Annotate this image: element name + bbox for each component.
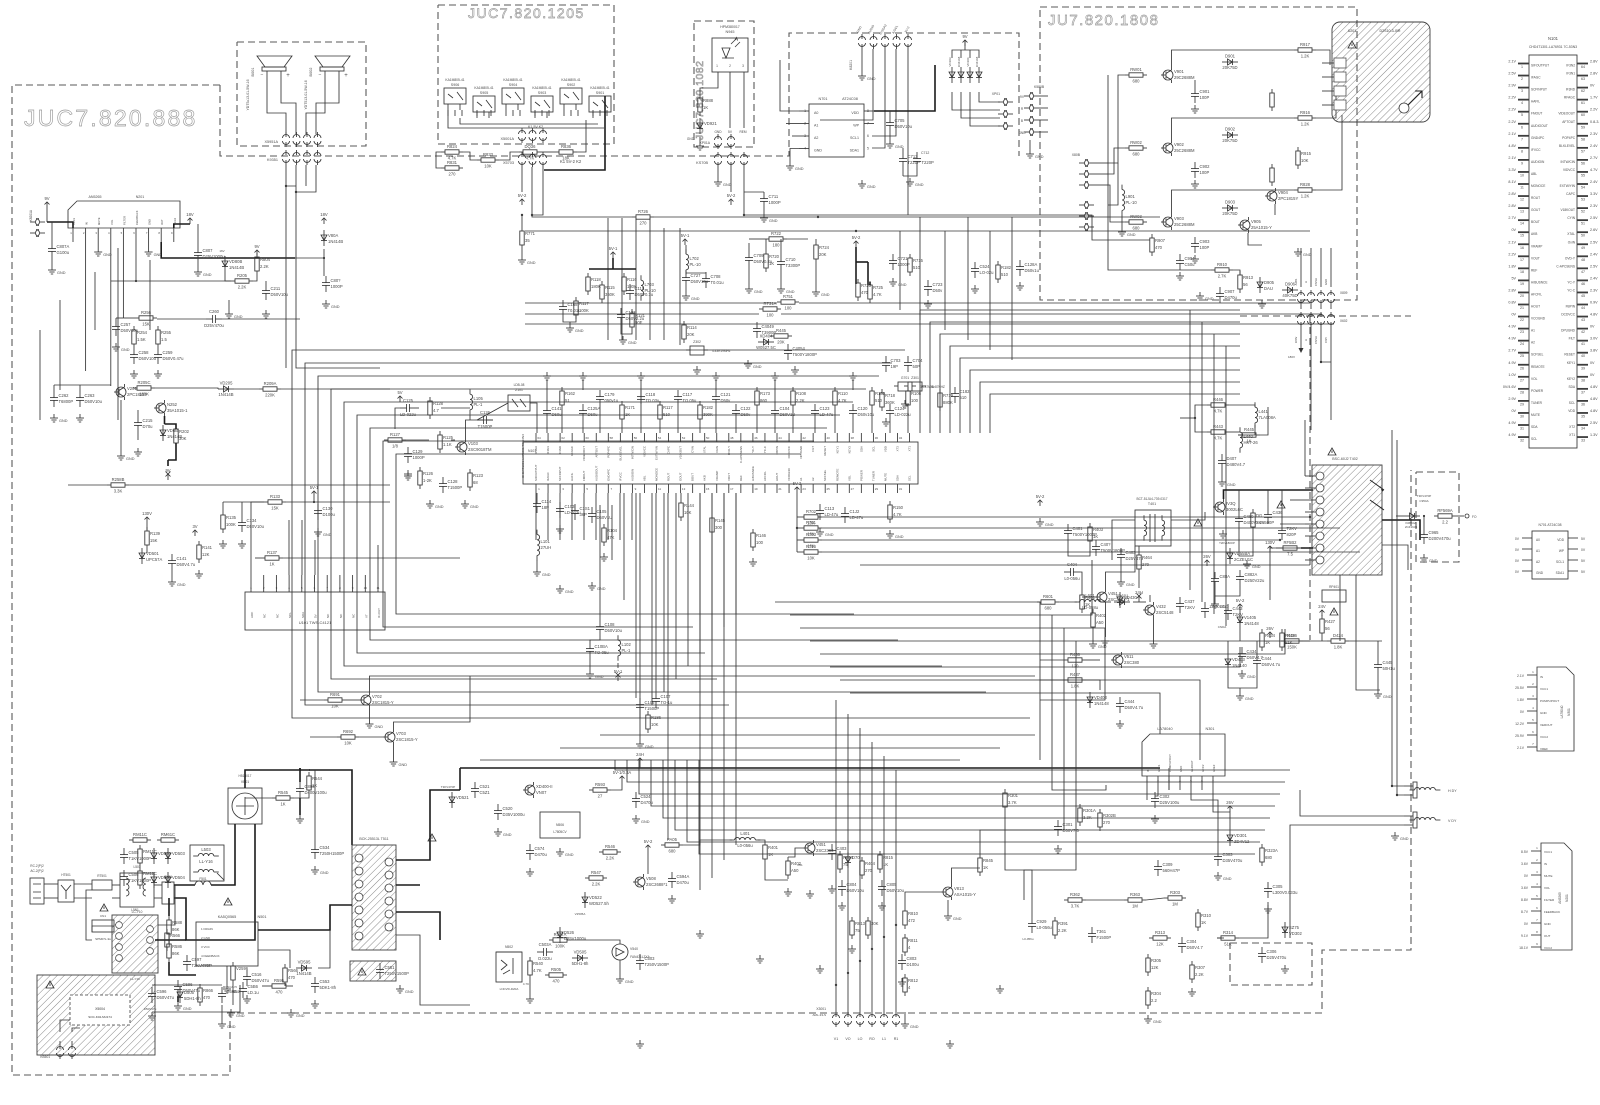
svg-text:V511: V511 (1124, 654, 1134, 659)
svg-text:X5001A: X5001A (500, 137, 514, 141)
svg-text:0V: 0V (1515, 548, 1520, 552)
svg-text:46: 46 (754, 436, 758, 440)
svg-text:C705: C705 (895, 118, 906, 123)
svg-text:C708: C708 (711, 274, 722, 279)
resistor R258B (107, 477, 129, 494)
wire flyback drop 1 (1339, 575, 1341, 641)
svg-text:C-APCSENS: C-APCSENS (1556, 264, 1575, 268)
capacitor C301 (1054, 820, 1079, 836)
svg-text:VD403: VD403 (1094, 695, 1107, 700)
capacitor C115 (626, 284, 654, 300)
svg-text:D250V22u: D250V22u (1245, 578, 1265, 583)
svg-text:27: 27 (1520, 378, 1524, 382)
svg-text:C703: C703 (891, 358, 902, 363)
wire key row bus (448, 110, 604, 128)
svg-text:1K: 1K (280, 802, 285, 807)
svg-text:A3B1: A3B1 (1294, 278, 1298, 285)
svg-text:R810: R810 (908, 911, 919, 916)
svg-text:H/BUSNCE: H/BUSNCE (1531, 280, 1547, 284)
svg-text:D35V1000u: D35V1000u (503, 812, 526, 817)
svg-text:VN07: VN07 (536, 790, 547, 795)
svg-text:SIFOUTPUT: SIFOUTPUT (1531, 64, 1549, 68)
varistor VD302 (1282, 922, 1302, 938)
svg-text:VIDVCC: VIDVCC (1563, 168, 1576, 172)
svg-text:38: 38 (851, 436, 855, 440)
transistor V511 (1111, 652, 1140, 668)
ground C168 (566, 324, 584, 333)
svg-text:58: 58 (1581, 137, 1585, 141)
svg-text:LL-Y16: LL-Y16 (199, 859, 213, 864)
svg-text:4.7K: 4.7K (526, 156, 535, 161)
svg-text:5V: 5V (397, 390, 402, 395)
svg-text:T6800P: T6800P (59, 399, 74, 404)
vcc 5V-1 (613, 770, 632, 782)
svg-text:KS70B: KS70B (696, 161, 708, 165)
svg-text:F1500P: F1500P (1097, 935, 1112, 940)
svg-text:H DY: H DY (1448, 789, 1457, 793)
svg-text:25: 25 (827, 487, 831, 491)
svg-text:R144: R144 (684, 503, 695, 508)
svg-text:C1S1: C1S1 (580, 506, 591, 511)
ground IF cluster (426, 500, 444, 509)
svg-text:X5004: X5004 (95, 1007, 105, 1011)
svg-text:42: 42 (802, 436, 806, 440)
svg-text:C807A: C807A (57, 244, 70, 249)
hatched pad below T511 (350, 961, 396, 981)
svg-text:W0527.5C: W0527.5C (756, 345, 776, 350)
svg-text:C125: C125 (403, 398, 414, 403)
svg-text:R833: R833 (483, 152, 494, 157)
svg-text:4.8V: 4.8V (1590, 313, 1598, 317)
svg-text:3 VCC: 3 VCC (201, 945, 211, 949)
svg-text:47: 47 (1581, 270, 1585, 274)
svg-text:R125: R125 (443, 435, 454, 440)
svg-text:L401: L401 (740, 831, 750, 836)
ground audio mid (225, 310, 243, 319)
svg-text:R162: R162 (565, 391, 576, 396)
svg-text:5V: 5V (314, 614, 318, 618)
svg-text:D50V7.5: D50V7.5 (1063, 828, 1080, 833)
svg-text:SZ75: SZ75 (1289, 925, 1300, 930)
diode VD522 (582, 892, 609, 908)
svg-text:ROUT: ROUT (667, 473, 671, 481)
svg-text:R363: R363 (1130, 892, 1141, 897)
svg-text:VD55BA: VD55BA (1234, 551, 1250, 556)
svg-text:D50V4.7u: D50V4.7u (1125, 705, 1144, 710)
module box JUC7.820.1205 (dashed) (438, 5, 614, 144)
diode VD921 (697, 118, 717, 134)
vcc 18V right col (320, 212, 328, 224)
capacitor C211 (262, 284, 289, 300)
wire speaker feed right (295, 192, 297, 230)
capacitor C259 (154, 348, 184, 364)
svg-text:38: 38 (1581, 378, 1585, 382)
svg-text:C727: C727 (691, 273, 702, 278)
resistor R910 (1211, 262, 1233, 279)
svg-text:48: 48 (730, 436, 734, 440)
svg-text:D50V47u: D50V47u (144, 1007, 157, 1011)
transistor V702 (359, 692, 394, 708)
wire bus right 7 (840, 680, 1200, 760)
svg-text:PL-10: PL-10 (690, 262, 702, 267)
inductor L105 (470, 389, 483, 415)
svg-text:RT31A: RT31A (764, 301, 777, 306)
svg-text:GND: GND (723, 183, 732, 187)
wire X5703 pin1 down 5V-2 (521, 167, 523, 192)
warning triangle tuner (1348, 41, 1356, 48)
svg-text:V905: V905 (1251, 219, 1261, 224)
ground top xtal (744, 360, 762, 369)
svg-text:T3300P: T3300P (786, 263, 801, 268)
svg-text:D50V4.7: D50V4.7 (1187, 945, 1204, 950)
svg-text:1N414B: 1N414B (296, 971, 311, 976)
svg-text:180: 180 (773, 243, 781, 248)
diode VD601 (1114, 594, 1130, 606)
svg-text:KA1M805-41: KA1M805-41 (445, 78, 464, 82)
svg-text:4: 4 (1521, 101, 1523, 105)
wire tuner pins west (1322, 62, 1334, 64)
svg-text:R116: R116 (627, 277, 637, 282)
resistor R202 (174, 425, 190, 447)
svg-text:KB501: KB501 (40, 1055, 50, 1059)
svg-text:4.8V: 4.8V (1590, 385, 1598, 389)
H deflection yoke (1410, 787, 1441, 790)
svg-text:T500Y1800P: T500Y1800P (793, 352, 818, 357)
svg-text:1.7V: 1.7V (1590, 96, 1598, 100)
svg-text:VCC2: VCC2 (1544, 946, 1552, 950)
capacitor C401d (1064, 524, 1097, 540)
resistor R509 (167, 940, 183, 962)
svg-text:R314: R314 (1223, 930, 1234, 935)
svg-text:1.8K: 1.8K (1334, 645, 1343, 650)
svg-text:5V-2: 5V-2 (518, 193, 527, 198)
resistor R845 (978, 854, 994, 876)
diode 1N4148 1 (958, 67, 964, 83)
SAW filter Z101 (508, 395, 530, 411)
svg-text:75: 75 (855, 928, 860, 933)
svg-text:GND: GND (597, 587, 606, 591)
svg-text:1000P: 1000P (769, 200, 781, 205)
capacitor C309 (1154, 860, 1180, 876)
wire left col verticals (94, 272, 96, 330)
svg-text:VIDEOOUT: VIDEOOUT (582, 446, 586, 461)
ground below IC (556, 585, 574, 594)
svg-text:GND: GND (375, 725, 384, 729)
svg-text:1 DRAIN: 1 DRAIN (201, 927, 213, 931)
svg-text:R209A: R209A (264, 381, 277, 386)
wire K580B east (1039, 95, 1048, 97)
svg-text:RW03: RW03 (1130, 214, 1142, 219)
svg-text:4.7K: 4.7K (1214, 436, 1223, 441)
svg-text:RW02: RW02 (1130, 140, 1142, 145)
svg-text:R866: R866 (203, 988, 214, 993)
wire psu 24v rail (459, 768, 461, 790)
svg-text:R1: R1 (894, 1037, 899, 1041)
svg-text:5V-2: 5V-2 (1036, 494, 1045, 499)
ground vert area (1144, 1015, 1162, 1024)
ground bottom 2 (816, 965, 824, 973)
svg-text:4 FEEDBACK: 4 FEEDBACK (201, 954, 220, 958)
svg-text:560H47P: 560H47P (1163, 868, 1181, 873)
svg-text:HAFIL: HAFIL (570, 472, 574, 481)
wire bus right 2 (790, 560, 1092, 615)
svg-text:2.2K: 2.2K (238, 285, 247, 290)
diode VD403 (1087, 692, 1109, 708)
vcc 24H (636, 752, 644, 764)
svg-text:12.2V: 12.2V (1515, 722, 1525, 726)
diode VD404 (1225, 654, 1247, 670)
svg-text:130V: 130V (1265, 540, 1275, 545)
svg-text:R588: R588 (172, 920, 183, 925)
diode XD404 (756, 334, 776, 351)
connector U101 LED/IR panel (245, 592, 385, 630)
wire X602 down (1310, 352, 1312, 430)
capacitor C130 (314, 504, 336, 520)
svg-text:270: 270 (449, 172, 457, 177)
svg-text:VD595: VD595 (298, 960, 311, 965)
svg-text:VT: VT (364, 614, 368, 618)
capacitor C129 (404, 447, 425, 463)
wire KS70B rem (743, 167, 745, 215)
svg-text:120: 120 (1072, 664, 1080, 669)
svg-text:39: 39 (1581, 366, 1585, 370)
svg-text:R540: R540 (533, 961, 544, 966)
resistor R110 (833, 387, 849, 409)
EEPROM N701 (right copy) (1532, 531, 1568, 579)
wire RGB bases (1108, 75, 1125, 163)
svg-text:GND: GND (565, 853, 574, 857)
svg-text:2SC380: 2SC380 (1124, 660, 1140, 665)
svg-text:1M: 1M (1132, 904, 1138, 909)
svg-text:SCFSEL: SCFSEL (823, 469, 827, 481)
svg-text:T361: T361 (1097, 929, 1107, 934)
svg-text:A2: A2 (811, 477, 815, 481)
svg-text:2.4V: 2.4V (1590, 252, 1598, 256)
svg-text:V432: V432 (1156, 604, 1166, 609)
capacitor C112 (841, 507, 864, 523)
ground bottom 0 (696, 930, 704, 938)
svg-text:GOUT: GOUT (679, 472, 683, 481)
svg-text:GND: GND (687, 137, 695, 141)
svg-text:680: 680 (669, 849, 677, 854)
svg-text:1.8V: 1.8V (1517, 698, 1525, 702)
svg-text:C596: C596 (157, 989, 168, 994)
ground N201 gnd (148, 242, 150, 248)
svg-text:100: 100 (767, 313, 775, 318)
ground V201 (117, 452, 135, 461)
capacitor C404d (1064, 562, 1080, 581)
svg-text:R701: R701 (806, 520, 817, 525)
resistor R256 (135, 310, 157, 327)
wire speaker drop extend (285, 230, 287, 368)
svg-text:R716: R716 (806, 544, 817, 549)
resistor R722 (765, 231, 787, 248)
svg-text:GND: GND (691, 297, 700, 301)
svg-text:5: 5 (1521, 113, 1523, 117)
svg-text:3.3V: 3.3V (1590, 192, 1598, 196)
capacitor C713 (899, 152, 920, 168)
svg-text:H/BUSNCE: H/BUSNCE (751, 466, 755, 481)
svg-text:C907: C907 (1225, 289, 1236, 294)
svg-text:C40?: C40? (1101, 542, 1112, 547)
svg-text:C211: C211 (271, 286, 281, 291)
svg-text:C141: C141 (177, 556, 188, 561)
resistor R720 (764, 250, 780, 272)
capacitor C403 (828, 844, 847, 860)
svg-text:2.1V: 2.1V (1508, 156, 1516, 160)
svg-text:3: 3 (1521, 89, 1523, 93)
svg-text:3.3K: 3.3K (114, 489, 123, 494)
svg-text:V703: V703 (396, 731, 406, 736)
wire N201 filter (122, 242, 124, 318)
resistor R150 (888, 501, 904, 523)
svg-text:21: 21 (778, 487, 782, 491)
capacitor C126 (477, 410, 493, 429)
diode VD521 (449, 792, 469, 808)
svg-text:R137: R137 (267, 550, 278, 555)
inductor L441 (1255, 402, 1276, 428)
svg-text:X80B: X80B (1072, 153, 1081, 157)
svg-text:2: 2 (1521, 77, 1523, 81)
safety cap RM11C (138, 845, 157, 867)
svg-text:D50V10u: D50V10u (895, 124, 913, 129)
svg-text:BCT-51JU4-739-0317: BCT-51JU4-739-0317 (1136, 497, 1167, 501)
connector X809 (1298, 290, 1335, 305)
resistor R436 (1064, 652, 1086, 669)
svg-text:1000P: 1000P (413, 455, 425, 460)
svg-text:R544: R544 (312, 776, 323, 781)
svg-text:180K: 180K (139, 392, 149, 397)
svg-text:R150: R150 (893, 505, 904, 510)
svg-text:C444: C444 (1262, 656, 1273, 661)
svg-text:R691: R691 (330, 692, 341, 697)
svg-text:2.3V: 2.3V (1590, 132, 1598, 136)
svg-text:50: 50 (1581, 234, 1585, 238)
svg-text:WD527.5h: WD527.5h (589, 901, 609, 906)
svg-text:LA78040: LA78040 (1560, 705, 1564, 718)
capacitor C524 (632, 792, 654, 808)
svg-text:25A1015-Y: 25A1015-Y (1251, 225, 1272, 230)
svg-text:2.2K: 2.2K (260, 264, 269, 269)
svg-text:C516: C516 (252, 972, 263, 977)
wire bus right 9 (860, 564, 1310, 566)
ground bottom 4 (996, 985, 1004, 993)
key switch S902 (560, 78, 582, 110)
resistor R724 (814, 241, 830, 263)
ground G701 (901, 400, 909, 408)
svg-text:KEY2: KEY2 (847, 446, 851, 454)
svg-text:REMOTE: REMOTE (1531, 365, 1545, 369)
svg-text:RT501: RT501 (97, 874, 107, 878)
svg-text:R724: R724 (819, 245, 830, 250)
svg-text:C124: C124 (895, 406, 906, 411)
svg-text:820P: 820P (1287, 532, 1297, 537)
svg-text:C903: C903 (1200, 239, 1211, 244)
mains hatched block X5004 (37, 975, 155, 1055)
svg-text:2.4V: 2.4V (1590, 180, 1598, 184)
svg-text:D424: D424 (1333, 633, 1344, 638)
svg-text:Z101: Z101 (515, 388, 523, 392)
svg-text:VDD: VDD (851, 111, 859, 115)
svg-text:IF3N2: IF3N2 (1566, 64, 1575, 68)
X2 capacitor C801 (162, 882, 174, 904)
resistor R254 (132, 326, 148, 348)
svg-text:GND: GND (1540, 711, 1548, 715)
wire top verticals (607, 218, 609, 340)
svg-text:SDA: SDA (859, 446, 863, 452)
safety cap C506 (120, 870, 151, 886)
svg-text:EXTW/YIN: EXTW/YIN (655, 446, 659, 460)
svg-text:GND: GND (435, 505, 444, 509)
svg-text:D25V47u: D25V47u (1126, 556, 1144, 561)
svg-text:T1KV1000P: T1KV1000P (129, 856, 152, 861)
svg-text:2.4V: 2.4V (1590, 276, 1598, 280)
wire 5V-2 bus (532, 215, 632, 217)
svg-text:+: + (286, 73, 290, 79)
svg-text:IN: IN (1540, 675, 1543, 679)
svg-text:INTW/CIN: INTW/CIN (630, 446, 634, 459)
svg-text:40K75D: 40K75D (1282, 293, 1297, 298)
svg-text:D25V1000u: D25V1000u (203, 254, 226, 259)
capacitor C907 (1216, 287, 1238, 303)
svg-text:R910: R910 (1217, 262, 1228, 267)
resistor R406 (1281, 633, 1303, 650)
svg-text:8.7V: 8.7V (1521, 910, 1529, 914)
svg-text:N701 AT24C08: N701 AT24C08 (1539, 523, 1562, 527)
svg-text:1.5: 1.5 (161, 337, 167, 342)
svg-text:29: 29 (875, 487, 879, 491)
svg-text:S901: S901 (596, 91, 604, 95)
svg-text:510: 510 (913, 265, 921, 270)
resistor R828 (1294, 182, 1316, 199)
diode VD864A (1404, 513, 1420, 519)
svg-text:DCDVCC: DCDVCC (787, 446, 791, 458)
svg-text:R205C: R205C (137, 380, 150, 385)
ground v813 (848, 945, 856, 953)
svg-text:SCL: SCL (1531, 437, 1537, 441)
svg-text:1.2K: 1.2K (1301, 194, 1310, 199)
connector X601 (859, 34, 912, 49)
svg-text:D50V10u: D50V10u (605, 628, 623, 633)
EEPROM N701 (809, 104, 864, 157)
svg-text:2.2V: 2.2V (1508, 96, 1516, 100)
wire mid verticals 2 (599, 505, 601, 620)
svg-text:C123: C123 (820, 406, 831, 411)
svg-text:CNSH: CNSH (1314, 336, 1318, 344)
svg-text:FBPIN: FBPIN (1566, 305, 1576, 309)
wire KS70B gnd (717, 167, 719, 178)
svg-text:14: 14 (1520, 222, 1524, 226)
resistor R403d (1088, 523, 1104, 545)
svg-text:D905: D905 (1264, 280, 1275, 285)
svg-text:D100u: D100u (323, 512, 336, 517)
svg-text:HAFIL: HAFIL (1531, 100, 1540, 104)
svg-text:680: 680 (1133, 152, 1141, 157)
capacitor C703 (882, 356, 901, 372)
vcc 5V-1 L702 (681, 233, 690, 245)
svg-text:R115: R115 (605, 285, 615, 290)
svg-text:SIFOUTPUT: SIFOUTPUT (534, 464, 538, 481)
svg-text:D50u: D50u (588, 412, 599, 417)
svg-text:61: 61 (1581, 101, 1585, 105)
svg-text:GND: GND (1126, 583, 1135, 587)
svg-text:TUNER: TUNER (1531, 401, 1543, 405)
svg-text:1: 1 (1521, 65, 1523, 69)
resistor R836 (555, 144, 577, 161)
svg-text:VD302: VD302 (1289, 931, 1302, 936)
capacitor C727 (682, 271, 709, 287)
svg-text:18.1V: 18.1V (1519, 946, 1529, 950)
